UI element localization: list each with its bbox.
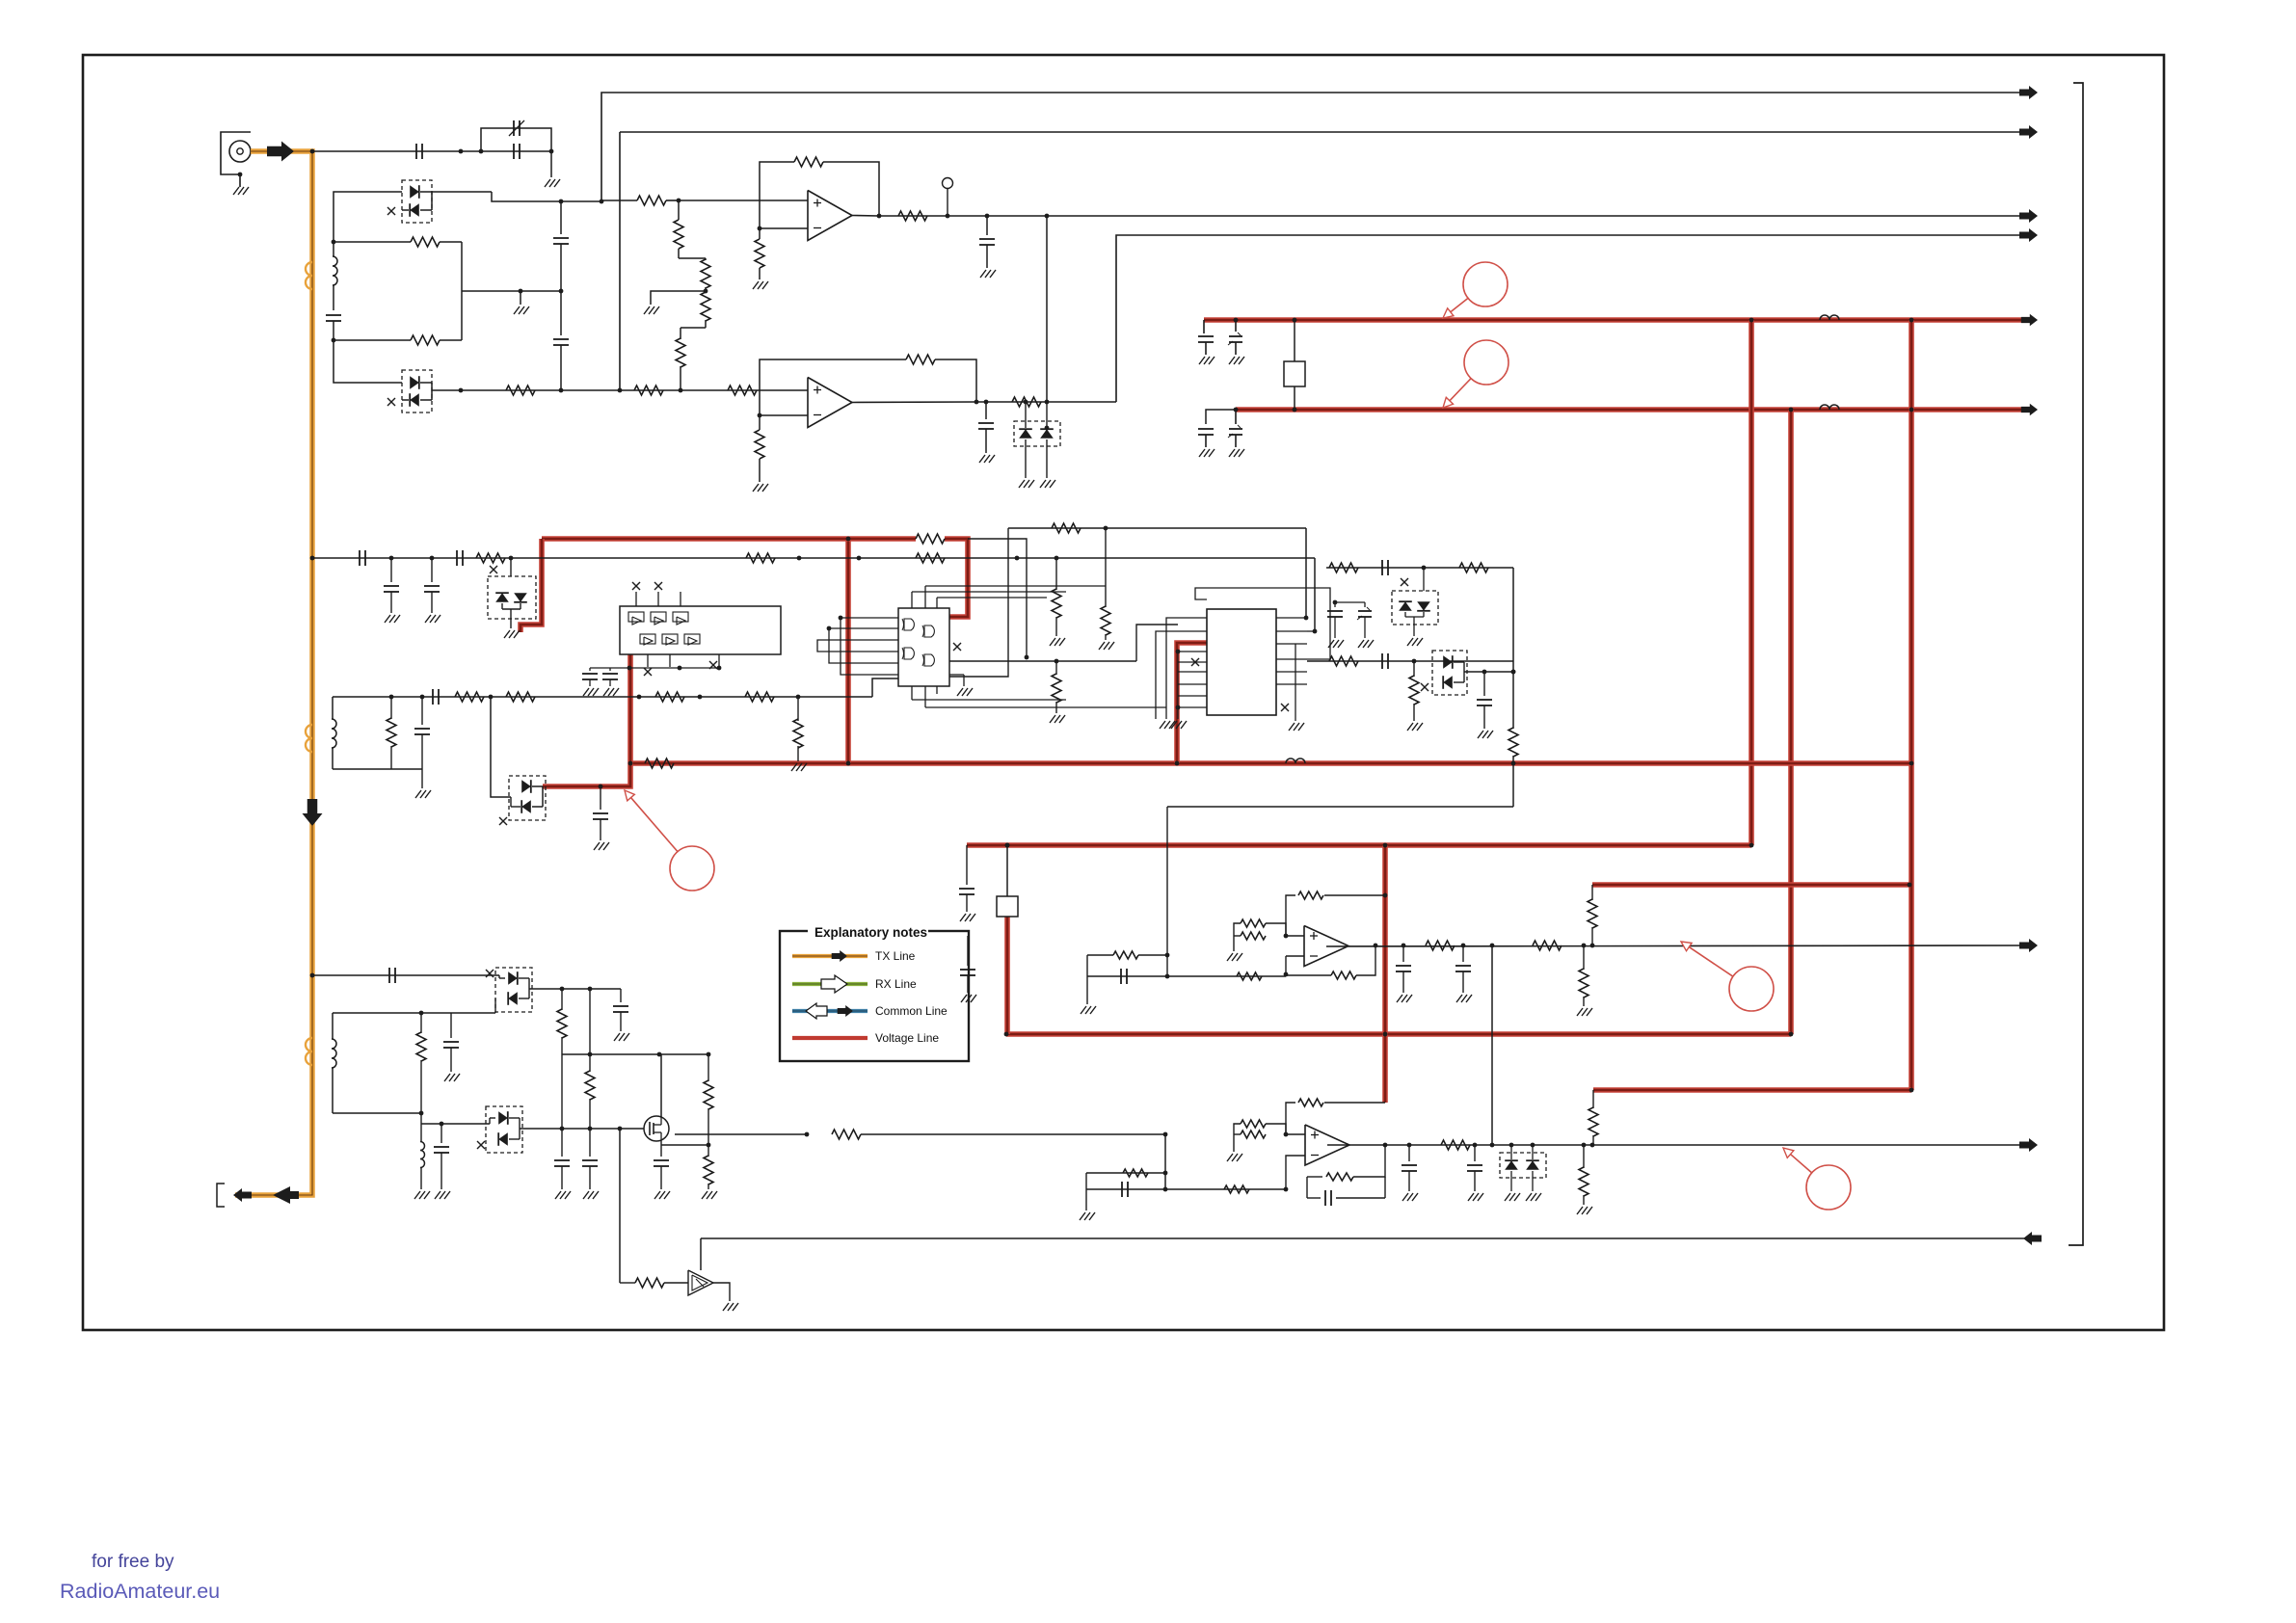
junction U7 row (1163, 1132, 1168, 1137)
TX direction arrow at top (267, 142, 294, 162)
U1 minus bias resistor R11 (759, 228, 761, 239)
wire op1 output line C (879, 215, 2037, 217)
junction row2 x478 (459, 388, 464, 393)
wire D1 elbow (492, 192, 601, 201)
cross mark D1 (387, 207, 395, 215)
junction out x837 (805, 1132, 810, 1137)
ground C9 (385, 615, 390, 623)
capacitor C6 op2 out (985, 402, 987, 419)
Q1 drain wire up (660, 1118, 662, 1125)
wire D3 grounds (1025, 439, 1027, 478)
ground C15 (594, 842, 600, 850)
junction row8 x612 (588, 1127, 593, 1131)
junction U7 in (1163, 1187, 1168, 1192)
TX line orange trunk (235, 151, 312, 1195)
U3 bottom pin stubs (647, 654, 649, 667)
tank1 resistor R1 top (411, 237, 440, 247)
ground C26 (435, 1191, 441, 1199)
arrow voltage line A (2021, 314, 2038, 327)
voltage vertical x1983 (1909, 320, 1914, 1090)
capacitor C11 below U3 (589, 668, 591, 671)
capacitor C34 U7 feedback (1307, 1197, 1321, 1199)
inductor L on voltage line A (1820, 315, 1839, 320)
series caps vertical x582 (560, 201, 562, 234)
cross mark D8 (486, 970, 494, 977)
capacitor C21 row5 (388, 968, 390, 983)
voltage vertical x880 (845, 539, 851, 763)
junction (1909, 318, 1914, 323)
inductor on voltage bus C (1286, 758, 1305, 763)
junction RX2 x1437 (1383, 1143, 1388, 1148)
capacitor C37 x583 (554, 1159, 570, 1161)
resistor R21 row4 (455, 692, 484, 702)
U5 right pin stubs (1276, 617, 1307, 619)
wire D1 output right (432, 191, 492, 193)
tank3 inductor L3 (332, 1013, 334, 1039)
junction lineA drop (600, 200, 604, 204)
U5 nest left verticals (1166, 618, 1178, 719)
ground R29 (1050, 638, 1055, 646)
wire row3 drop to IC2 nest (1314, 558, 1316, 631)
junction row4 x726 (698, 695, 703, 700)
junction row3 x448 (430, 556, 435, 561)
junction y686 x1467 (1412, 659, 1417, 664)
arrow line D (2019, 228, 2038, 242)
wire long to op4 (861, 1133, 1165, 1135)
junction x582 y405 (559, 388, 564, 393)
buffer U3 top 2 (651, 612, 666, 622)
tank1 resistor R3 bottom (411, 335, 440, 345)
tank2 resistor R26 (390, 697, 392, 719)
switch box S2 (997, 896, 1018, 917)
resistor R37 x583 (561, 989, 563, 1010)
junction (1909, 761, 1914, 766)
resistor R59 RX2 (1441, 1140, 1470, 1150)
wire D8 out (529, 988, 621, 990)
buffer U3 top 1 (628, 612, 644, 622)
junction (846, 761, 851, 766)
tank2 capacitor C14 (421, 697, 423, 725)
resistor R62 below RX2 (1583, 1145, 1585, 1168)
resistor R42 out (832, 1130, 861, 1139)
capacitor C at head of voltage line A (1203, 320, 1205, 333)
buffer U3 bottom 2 (662, 634, 678, 644)
junction link top (1045, 214, 1050, 219)
U4 nest bottom wires (912, 699, 1066, 701)
legend RX line sample (792, 982, 868, 986)
ground R31 (1050, 715, 1055, 723)
arrow line C (2019, 209, 2038, 223)
resistor R18 row3 (476, 553, 505, 563)
resistor R50 RX1 (1533, 941, 1562, 950)
tank2 inductor L2 (332, 697, 334, 719)
ground below J1 (233, 187, 239, 195)
junction U6 in (1165, 974, 1170, 979)
junction row3 TX (310, 556, 315, 561)
junction (1909, 408, 1914, 412)
capacitor C26 below (441, 1124, 442, 1143)
wire U1 output (852, 215, 879, 218)
resistor R29 x1096 upper (1055, 558, 1057, 590)
voltage branch to IC2 (1177, 643, 1207, 763)
voltage feed legend-square to bus D (1004, 917, 1010, 1034)
capacitor C8 row3 (456, 550, 458, 566)
resistor R38 x612 (589, 989, 591, 1072)
wire tank1 mid to ground link (462, 290, 561, 292)
svg-text:RadioAmateur.eu: RadioAmateur.eu (60, 1580, 220, 1603)
junction tank3 bottom (419, 1111, 424, 1116)
junction U1 out (877, 214, 882, 219)
junction tank2 c (420, 695, 425, 700)
junction row3 x891 (857, 556, 862, 561)
wire common line bottom (701, 1237, 2024, 1239)
capacitor C9 below row3 (390, 558, 392, 582)
capacitor C19 row y686 (1381, 653, 1383, 669)
polarized capacitor at head of voltage line A (1235, 320, 1237, 332)
voltage feed from buffer IC (543, 654, 630, 786)
callout balloon 2 (1464, 340, 1508, 385)
junction RX1 x1548 (1490, 944, 1495, 948)
callout balloon 1 (1463, 262, 1508, 306)
wire y589 corner down x1570 (1512, 568, 1514, 729)
junction y548 (1104, 526, 1108, 531)
junction row3 x530 (509, 556, 514, 561)
op-amp U2 (808, 378, 852, 428)
wire D1 to tank1 (334, 192, 402, 242)
junction (1908, 883, 1912, 888)
junction U2 out (974, 400, 979, 405)
wire x1211 drop to op3 (1166, 807, 1168, 955)
wire tank2 to ground (421, 769, 423, 788)
wire buffer up to common line (700, 1238, 702, 1270)
junction dots y579 mid (1015, 556, 1020, 561)
cross marks below U3 (644, 668, 652, 676)
wire U2 output (852, 401, 976, 404)
ground C37 (555, 1191, 561, 1199)
tank1 inductor L1 (333, 242, 334, 256)
tank2 bottom wire (333, 768, 422, 770)
ground U5 right (1289, 723, 1295, 731)
U3 top pin stubs (635, 592, 637, 606)
U6 local feedback resistor R63 (1284, 972, 1289, 977)
ground C27 (654, 1191, 660, 1199)
junction row8 x583 (560, 1127, 565, 1131)
tank1 right side (461, 242, 463, 340)
junction (628, 761, 633, 766)
U5 left pin stubs (1178, 617, 1207, 619)
callout balloon 3 (670, 846, 714, 891)
wire divider jog2 (681, 327, 706, 329)
node line A elbow (601, 93, 2037, 200)
resistor R28 x1147 (1105, 528, 1107, 607)
junction (1004, 1032, 1009, 1037)
ground C25 (444, 1074, 450, 1081)
cross mark U5 right (1281, 704, 1289, 711)
resistor R25 below row4 (797, 697, 799, 721)
resistor R40 x735 (707, 1054, 709, 1081)
junction row4 x828 (796, 695, 801, 700)
U5 right riser y579 (1313, 629, 1318, 634)
node line B elbow (620, 131, 2037, 133)
cross mark D2 (387, 398, 395, 406)
resistor on voltage bus C (645, 758, 674, 768)
junction row1 x572 (549, 149, 554, 154)
Q1 source wire down (660, 1132, 662, 1141)
ground divider (644, 306, 650, 314)
junction (1909, 1088, 1914, 1093)
ground mid (514, 306, 520, 314)
callout balloon 5 (1806, 1165, 1851, 1210)
junction row8 x643 (618, 1127, 623, 1131)
ground C10 (425, 615, 431, 623)
capacitor C35 RX2 (1408, 1145, 1410, 1161)
buffer U3 top 3 (673, 612, 688, 622)
junction RX1 x1456 (1402, 944, 1406, 948)
U7 feedback to red V4 end (1286, 1103, 1295, 1134)
U5 right vertical to ground (1295, 644, 1296, 709)
wire row4 y723 (333, 696, 872, 698)
op-amp U6 (1304, 926, 1348, 967)
junction R40 top (707, 1143, 711, 1148)
junction on J1 ground leg (238, 173, 243, 177)
ground C31 (1397, 995, 1402, 1002)
junction U1 -in node (758, 226, 762, 231)
capacitor C2 row1 (513, 144, 515, 159)
wire row5 y1012 (312, 974, 499, 976)
U6 feedback to red V4 (1286, 895, 1295, 936)
capacitor C10 below row3 (431, 558, 433, 582)
capacitor C33 U7 in (1121, 1182, 1123, 1197)
trimmer capacitor CT1 (513, 120, 515, 136)
ground D4 (504, 630, 510, 638)
parallel resistors R44 R45 U6 (1241, 919, 1266, 927)
ground C35 (1402, 1193, 1408, 1201)
junction RX1 x1518 (1461, 944, 1466, 948)
wire -in U7 (1286, 1156, 1305, 1189)
resistor R31 x1096 lower (1055, 661, 1057, 675)
U5 wrap wire top (1195, 588, 1330, 659)
junction D8 out x583 (560, 987, 565, 992)
capacitor C31 RX1 (1402, 945, 1404, 962)
resistor R41 x735 low (707, 1145, 709, 1157)
junction x1211 y991 (1165, 953, 1170, 958)
diode pair D8 dashed box (495, 968, 532, 1012)
resistor R56 U7 in (1123, 1169, 1148, 1177)
svg-text:Common Line: Common Line (875, 1004, 948, 1018)
resistor R20 row3 (916, 553, 945, 563)
junction tank1 bottom (332, 338, 336, 343)
diode pair D2 in dashed box (402, 370, 432, 412)
capacitor C20 at D7 out (1483, 672, 1485, 696)
diode pair D10 dashed box (1500, 1153, 1546, 1178)
junction D10 (1509, 1143, 1514, 1148)
junction RX2 x1462 (1407, 1143, 1412, 1148)
ground D3a (1019, 480, 1025, 488)
cross mark U4 right (953, 643, 961, 651)
resistor R14 op2 input (728, 386, 757, 395)
ground row1 (545, 179, 550, 187)
inductor L on voltage line B (1820, 405, 1839, 410)
capacitor C29 x1003 lower (967, 936, 969, 966)
voltage drop to diode box4 (521, 539, 542, 632)
cross mark D4 (490, 566, 497, 573)
wire buffer ground (713, 1283, 730, 1301)
capacitor C30 U6 in (1120, 969, 1122, 984)
wire D7 out (1464, 671, 1513, 673)
junction RX2 x1643 (1582, 1143, 1587, 1148)
op-amp U1 (808, 191, 852, 241)
legend TX line sample (792, 954, 868, 958)
voltage vertical x1858 (1788, 410, 1794, 1034)
U4 nest top wires (912, 591, 1066, 593)
arrow line B (2019, 125, 2038, 139)
ground C20 (1478, 731, 1483, 738)
junction U2 -in (758, 413, 762, 418)
junction y589 x1477 (1422, 566, 1427, 571)
buffer U3 bottom 1 (640, 634, 655, 644)
junction U3 below (627, 666, 632, 671)
junction link bottom (1045, 400, 1050, 405)
wire U7 output RX2 (1327, 1144, 2037, 1146)
resistor R61 to bus H (1592, 1090, 1594, 1108)
junction supply x1045 (1005, 843, 1010, 848)
resistor R4 row2 (506, 386, 535, 395)
junction (1749, 318, 1754, 323)
junction x1065 y682 (1025, 655, 1029, 660)
capacitor C18 row y589 (1381, 560, 1383, 575)
black line y837 (1167, 806, 1513, 808)
polarized capacitor at head of voltage line B (1235, 410, 1237, 424)
svg-text:for free by: for free by (92, 1552, 174, 1572)
voltage bus D y1073 (1006, 1031, 1791, 1037)
cross marks above U3 (632, 582, 640, 590)
junction y1094 x735 (707, 1052, 711, 1057)
gate IC U4 (898, 608, 949, 686)
voltage line A y332 (1204, 317, 2032, 323)
cross mark D5 (499, 817, 507, 825)
junction (1234, 318, 1239, 323)
ground R28 (1099, 642, 1105, 650)
series resistor in mid rail y559 (916, 534, 945, 544)
polarized cap C17 at U5 (1364, 602, 1366, 607)
input network U6 (1087, 975, 1286, 977)
voltage bus G y918 (1592, 882, 1909, 888)
ground R51 (1577, 1008, 1583, 1016)
parallel resistors R53 R54 U7 (1241, 1120, 1266, 1128)
junction RX1 x1427 (1374, 944, 1378, 948)
junction divider mid (704, 289, 708, 294)
ground L4 (414, 1191, 420, 1199)
grounds U5 left (1160, 721, 1165, 729)
junction (599, 785, 603, 789)
resistor R57 U7 in (1224, 1185, 1249, 1193)
voltage mid rail y559 (542, 536, 916, 542)
resistor R10 op1 input (637, 196, 666, 205)
ground U1 bias (753, 281, 759, 289)
ground C32 (1456, 995, 1462, 1002)
resistor R51 below RX1 (1583, 945, 1585, 970)
junction U5 left (1176, 650, 1181, 654)
wire row4 drop to diode box5 (491, 697, 511, 797)
resistor R35 row y686 (1329, 656, 1358, 666)
ground U6 +bias (1227, 953, 1233, 961)
wire y1094 (562, 1053, 708, 1055)
ground D10a (1505, 1193, 1510, 1201)
coil bump on TX line y765 (306, 725, 312, 752)
resistor R23 row4 (655, 692, 684, 702)
resistor R24 row4 (745, 692, 774, 702)
cross mark D7 (1421, 683, 1428, 691)
voltage bus H y1131 (1593, 1087, 1911, 1093)
wire op2 output line D elbow (1116, 235, 2037, 402)
ground D6 (1407, 638, 1413, 646)
junction (1383, 843, 1388, 848)
resistor R46 U6 feedback (1298, 891, 1323, 899)
junction x582 y302 (559, 289, 564, 294)
voltage bus C y792 (630, 760, 1911, 766)
junction RX2 x1530 (1473, 1143, 1478, 1148)
capacitor C12 below U3 (609, 668, 611, 671)
resistor R36 below junction (1413, 661, 1415, 677)
wire y548 corner down to U4 (949, 528, 1008, 677)
junction (1293, 318, 1297, 323)
ground tank2 (415, 790, 421, 798)
cross mark U5 left (1191, 658, 1199, 666)
wire row3 y579 (312, 557, 1315, 559)
U2 feedback loop (760, 359, 906, 415)
wire row y589 (1326, 567, 1513, 569)
ground C17 (1358, 640, 1364, 648)
test point TP1 (947, 189, 948, 216)
junction RX1 x1643 (1582, 944, 1587, 948)
U4 bottom stubs (911, 686, 913, 700)
junction (1749, 843, 1754, 848)
input chain U7 (1107, 1172, 1165, 1174)
junction tank2 (389, 695, 394, 700)
ground C6 (979, 455, 985, 463)
wire D10 grounds (1510, 1171, 1512, 1191)
wire +in U6 (1286, 935, 1304, 937)
ground C29 (961, 995, 967, 1002)
diode pair D1 in dashed box (402, 180, 432, 223)
junction link bottom RX2 (1490, 1143, 1495, 1148)
junction (1175, 761, 1180, 766)
op-amp U7 (1305, 1125, 1349, 1165)
junction y589 x1570 crossing (1511, 670, 1516, 675)
junction (1789, 1032, 1794, 1037)
wire y548 drop (1305, 528, 1307, 618)
svg-text:RX Line: RX Line (875, 977, 917, 991)
junction row2 x643 (618, 388, 623, 393)
resistor R33 row y589 (1459, 563, 1488, 572)
junction row3 x829 (797, 556, 802, 561)
arrow voltage line B (2021, 404, 2038, 416)
ground C22 (614, 1033, 620, 1041)
wire row7 y1166 (421, 1123, 490, 1125)
ground R25 (791, 763, 797, 771)
junction (1383, 1032, 1388, 1037)
trimmer loop row1 (481, 128, 551, 151)
resistor R9 divider (680, 328, 681, 339)
TX coax connector J1 (221, 132, 251, 174)
ground C5 (980, 270, 986, 278)
coil bump on TX line y1090 (306, 1038, 312, 1065)
link RX1-RX2 vertical (1491, 945, 1493, 1145)
junction RX1 x1652 (1590, 944, 1595, 948)
junction row2 x706 (679, 388, 683, 393)
wire D4 ground (510, 609, 512, 628)
arrow RX2 (2019, 1138, 2038, 1152)
